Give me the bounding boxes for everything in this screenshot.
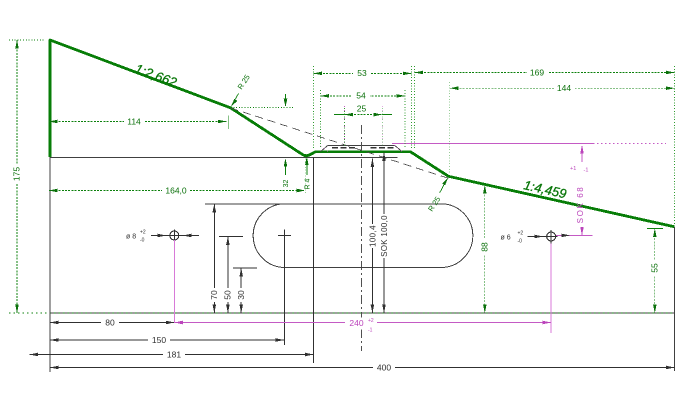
ground line [50,157,398,159]
obround right arc [441,204,473,268]
svg-text:-0: -0 [140,238,145,244]
green extension lines [305,66,674,226]
label R 25 upper (green) [231,73,252,107]
baseline [50,312,675,314]
dim 53 (green) [313,68,411,79]
svg-text:+1: +1 [570,166,576,172]
dashed construction line knee1-knee2 [231,108,450,179]
dim SOK 100,0 vertical [380,153,389,314]
magenta plateau level line [392,143,593,145]
dim 181 [30,349,314,360]
svg-text:50: 50 [223,290,233,300]
svg-text:+2: +2 [518,231,524,237]
svg-text:32: 32 [283,180,290,188]
dim 80 [50,317,174,328]
svg-text:80: 80 [105,317,115,327]
dim 240 (magenta) [174,318,551,334]
baseline green dotted overlay [9,312,675,314]
svg-text:88: 88 [479,242,489,252]
crown plateau dashed bars [332,147,357,149]
dim 25 (green, outside arrows) [334,103,392,116]
svg-text:ø 8: ø 8 [126,233,136,240]
dim 54 (green) [320,91,405,102]
svg-text:SOK 100,0: SOK 100,0 [380,215,389,257]
svg-text:-0: -0 [518,239,523,245]
dim 50 [219,236,243,313]
svg-text:30: 30 [236,290,246,300]
obround left arc [253,204,285,268]
svg-text:150: 150 [152,335,166,345]
svg-text:+2: +2 [140,230,146,236]
label R 4 (green) [305,157,312,190]
svg-text:164,0: 164,0 [165,185,187,195]
dim 169 (green) [415,67,675,78]
dim 150 [50,335,284,346]
profile outline (green road cross-section) [50,40,675,227]
left edge [49,157,51,372]
svg-text:ø 6: ø 6 [501,235,511,242]
svg-text:+2: +2 [368,318,374,324]
svg-text:100,4: 100,4 [368,225,377,247]
dim 30 [233,268,257,313]
dim 164,0 (green) [49,185,305,196]
knee1 level dotted line [231,106,295,108]
svg-text:-1: -1 [368,328,373,334]
ext line 181 [313,158,315,363]
magenta SOK 68 dimension [570,145,588,235]
obround slot top edge [205,203,441,205]
svg-text:25: 25 [357,103,367,113]
dim 70 [209,204,219,313]
dim 175 (green, left) [9,40,44,313]
dim 144 (green) [450,83,675,94]
magenta dotted overlays on crown ext lines [321,106,403,152]
svg-text:181: 181 [167,349,181,359]
svg-text:54: 54 [356,91,366,101]
right position marker [501,230,593,245]
svg-text:114: 114 [127,116,141,126]
dim 114 (green) [49,116,229,130]
svg-text:70: 70 [209,290,219,300]
magenta marker drop lines [173,240,175,323]
dim 88 (green vertical) [479,185,489,313]
svg-text:169: 169 [530,67,544,77]
obround slot bottom edge [282,267,441,269]
svg-text:400: 400 [377,362,391,372]
dim 55 (green vertical) [647,229,663,314]
svg-text:175: 175 [12,167,22,181]
svg-text:240: 240 [349,318,363,328]
svg-text:53: 53 [357,68,367,78]
svg-text:144: 144 [557,83,571,93]
dim 400 [50,362,675,373]
dim 32 (green) [283,94,290,187]
dim 100,4 vertical [368,159,377,314]
label R 25 lower (green) [426,177,448,213]
svg-text:SOK 68: SOK 68 [576,186,585,224]
right edge [674,227,676,371]
centerline (dash-dot) [361,125,363,351]
svg-text:55: 55 [649,263,659,273]
slot center mark [278,235,291,237]
left position marker [126,230,199,244]
svg-text:-1: -1 [584,168,589,174]
crown plateau outline [321,145,403,151]
